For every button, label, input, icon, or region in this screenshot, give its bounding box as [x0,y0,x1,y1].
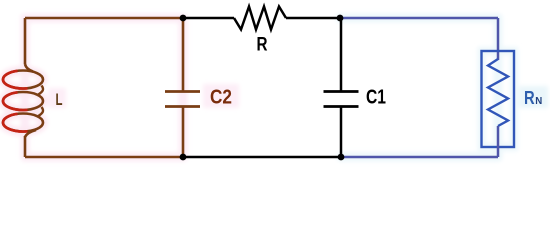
node junction dot bottom-right [338,154,345,161]
wire: top black wire right of R (286,18)-(340,18) [286,17,340,20]
capacitor C2 bottom lead [182,107,185,157]
wire: left vertical brown stub top (25,18)-(25,64) [24,18,27,64]
node junction dot top-left [180,15,187,22]
inductor L coil turn 2 [3,92,43,110]
node junction dot top-right [337,15,344,22]
wire: top blue wire (340,18)-(498,18) [340,17,498,20]
svg-text:C1: C1 [366,87,386,109]
capacitor C2 bottom plate [165,105,200,108]
capacitor C2 top plate [165,90,200,93]
node junction dot bottom-left [180,154,187,161]
inductor L turn connector 2-3 [38,107,43,116]
resistor RN zigzag [488,59,508,126]
wire: left vertical brown stub bottom (25,136)-(25,157) [24,136,27,157]
inductor L top hook [25,64,33,72]
inductor L bottom hook [25,130,36,137]
capacitor C1 top plate [324,90,359,93]
svg-text:N: N [535,95,542,107]
capacitor C1 bottom lead [340,107,343,157]
svg-text:R: R [257,34,268,55]
wire: blue vertical down to RN (498,18)-(498,60) [497,18,500,60]
inductor L red highlight arcs [3,71,28,132]
wire: top-left brown wire (25,18)-(183,18) [25,17,183,20]
wire: bottom-left brown wire (25,157)-(183,157) [25,156,183,159]
resistor RN box [482,51,515,147]
capacitor C1 bottom plate [324,105,359,108]
inductor L coil turn 1 [3,71,43,89]
svg-text:C2: C2 [210,87,232,109]
wire: blue vertical below RN (498,126)-(498,157) [497,126,500,157]
capacitor C1 top lead [340,18,343,91]
capacitor C2 top lead [182,18,185,91]
inductor L turn connector 1-2 [38,86,43,95]
wire: bottom black wire (183,157)-(341,157) [183,156,341,159]
inductor L coil turn 3 [3,114,43,132]
wire: bottom blue wire (341,157)-(498,157) [341,156,498,159]
wire: top black wire left of R (183,18)-(234,18) [183,17,234,20]
resistor R zigzag [234,7,286,30]
svg-text:L: L [56,90,63,109]
svg-text:R: R [524,87,535,108]
